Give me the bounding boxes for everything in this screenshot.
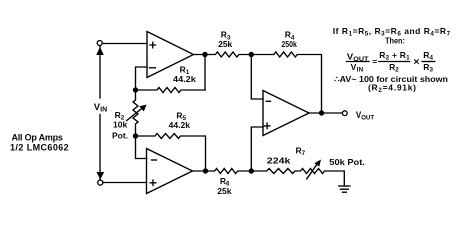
svg-text:Pot.: Pot. [112,131,128,141]
svg-text:25k: 25k [218,39,232,49]
svg-text:VOUT: VOUT [356,110,375,121]
svg-text:(R2=4.91k): (R2=4.91k) [368,83,416,95]
svg-text:R4: R4 [423,50,433,62]
svg-text:50k Pot.: 50k Pot. [329,157,365,167]
svg-text:250k: 250k [281,39,297,49]
svg-text:R3: R3 [423,62,433,74]
svg-text:R2: R2 [389,62,399,74]
svg-text:Then:: Then: [385,36,405,46]
svg-text:All Op Amps: All Op Amps [12,132,63,142]
svg-text:10k: 10k [113,119,127,129]
svg-text:VIN: VIN [351,62,364,74]
svg-text:44.2k: 44.2k [169,120,191,130]
svg-text:VIN: VIN [94,102,107,113]
svg-text:1/2 LMC6062: 1/2 LMC6062 [10,143,69,153]
svg-text:×: × [413,56,419,68]
svg-text:224k: 224k [267,156,291,166]
svg-text:R7: R7 [296,146,306,158]
svg-text:R2 + R1: R2 + R1 [379,50,410,62]
svg-text:44.2k: 44.2k [173,74,196,84]
svg-text:25k: 25k [217,186,231,196]
svg-text:=: = [372,56,377,66]
